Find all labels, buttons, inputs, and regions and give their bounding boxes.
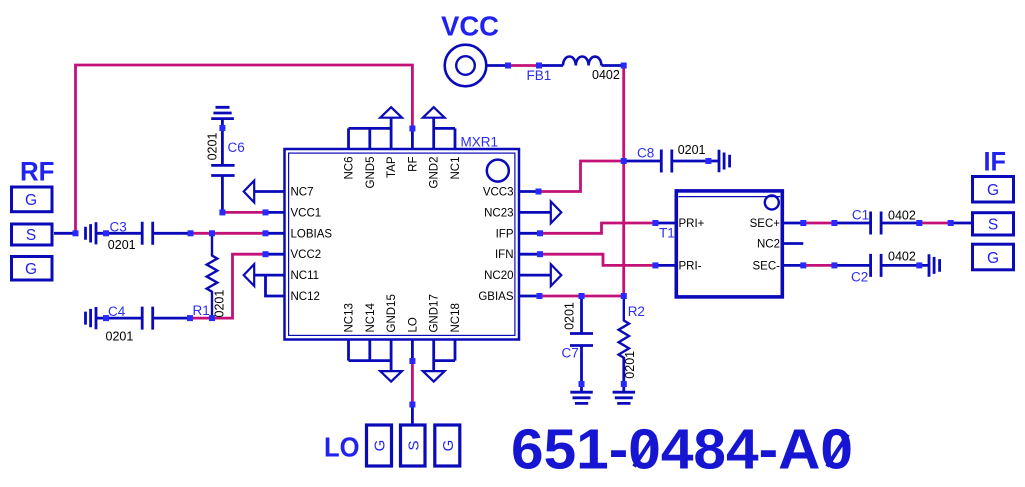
wire NC7 pin: [254, 190, 284, 193]
wire GND17 stub: [432, 340, 435, 372]
SECTION: IC pin name texts: [291, 156, 781, 332]
node C3 out: [188, 230, 194, 236]
wire NC6 stub: [347, 128, 350, 149]
svg-text:G: G: [372, 440, 389, 452]
wire C4/R1 to VCC2: [190, 254, 266, 318]
wire C3 left lead: [96, 232, 142, 235]
wire RF S pad to RF pin (net RF): [76, 65, 413, 233]
wire RF S pad stub: [54, 232, 76, 235]
wire IFN to T1 PRI-: [540, 254, 655, 265]
svg-text:R1: R1: [193, 303, 210, 318]
svg-text:NC14: NC14: [365, 302, 377, 332]
wire RF pin stub: [411, 129, 414, 150]
svg-text:LO: LO: [407, 317, 419, 332]
svg-text:VCC1: VCC1: [291, 207, 322, 219]
svg-text:NC7: NC7: [291, 187, 314, 199]
port LO pads G/S/G: [367, 425, 460, 466]
svg-text:0201: 0201: [623, 351, 637, 379]
ground (C6 top, pointing up): [211, 107, 234, 118]
svg-text:C1: C1: [852, 208, 869, 223]
node C8 in: [621, 158, 627, 164]
wire NC18 stub: [454, 340, 457, 361]
node IFP: [537, 230, 543, 236]
svg-text:G: G: [987, 250, 999, 267]
svg-text:G: G: [25, 261, 37, 278]
wire C2 left lead: [834, 264, 870, 267]
wire T1 SEC- to C2: [803, 264, 834, 267]
node VCC-a: [505, 63, 511, 69]
SECTION: wires: [76, 65, 951, 405]
capacitor C3: [142, 222, 153, 245]
node C1 out: [916, 220, 922, 226]
wire C6 top lead: [221, 119, 224, 166]
capacitor C4: [142, 307, 153, 330]
wire TAP stub: [390, 118, 393, 150]
wire VCC to FB1: [508, 64, 539, 67]
node C6 corner: [219, 209, 225, 215]
node C1 in: [831, 220, 837, 226]
wire IF S pad stub: [951, 222, 971, 225]
node C7 bottom: [579, 381, 585, 387]
slash on zero 1: [634, 435, 655, 467]
wire junction to FB1: [539, 64, 563, 67]
wire VCC1 pin stub: [266, 211, 285, 214]
node SEC+: [800, 220, 806, 226]
node C8 out: [705, 158, 711, 164]
ground (C4 left, sideways): [86, 307, 97, 329]
wire GND2-NC1 bracket: [434, 127, 455, 130]
wire GBIAS to C7/R2: [540, 295, 624, 298]
wire NC13 stub: [347, 340, 350, 361]
svg-text:RF: RF: [20, 157, 55, 187]
wire C1 right lead: [881, 222, 919, 225]
capacitor C6 (vertical): [211, 165, 234, 175]
wire T1 SEC+ stub: [782, 222, 803, 225]
node C4 gnd: [103, 315, 109, 321]
ground (C3 left, sideways): [86, 222, 97, 244]
node PRI-: [652, 262, 658, 268]
svg-text:C2: C2: [851, 269, 868, 284]
svg-text:T1: T1: [659, 226, 675, 241]
node IFN: [537, 251, 543, 257]
svg-text:S: S: [26, 227, 36, 244]
wire T1 PRI+ stub: [655, 222, 676, 225]
node C2 in: [831, 262, 837, 268]
wire C1 to IF S pad: [919, 222, 950, 225]
svg-text:0201: 0201: [213, 290, 227, 318]
wire NC13-NC14-GND15 bracket: [349, 359, 392, 362]
svg-text:GND2: GND2: [429, 157, 441, 189]
wire GND17-NC18 bracket: [434, 359, 455, 362]
SECTION: arrows (no-connect flags): [244, 107, 562, 381]
arrow NC23: [551, 202, 562, 224]
wire C7 top lead: [580, 296, 583, 334]
svg-text:NC23: NC23: [484, 207, 513, 219]
wire NC20 pin: [519, 274, 551, 277]
node VCC1: [263, 209, 269, 215]
svg-text:NC6: NC6: [344, 157, 356, 180]
port VCC circle: [445, 45, 487, 87]
svg-text:VCC2: VCC2: [291, 249, 322, 261]
wire IFP to T1 PRI+: [540, 223, 655, 233]
wire C1 left lead: [834, 222, 870, 225]
svg-text:NC13: NC13: [344, 303, 356, 332]
wire T1 PRI- stub: [655, 264, 676, 267]
svg-text:GND15: GND15: [386, 294, 398, 332]
slash on zero 2: [827, 435, 848, 467]
node GBIAS: [537, 293, 543, 299]
svg-text:FB1: FB1: [527, 68, 552, 83]
wire NC1 stub: [454, 128, 457, 149]
svg-text:TAP: TAP: [386, 156, 398, 178]
svg-text:IF: IF: [984, 147, 1007, 177]
node VCC-b: [536, 63, 542, 69]
wire C3 to LOBIAS: [191, 232, 266, 235]
svg-text:LOBIAS: LOBIAS: [291, 228, 333, 240]
capacitor C8: [661, 150, 672, 173]
node VCC-c: [621, 63, 627, 69]
node SEC-: [800, 262, 806, 268]
wire GBIAS pin stub: [519, 295, 540, 298]
svg-text:C4: C4: [108, 304, 126, 319]
wire NC14 stub: [368, 340, 371, 361]
svg-text:GBIAS: GBIAS: [478, 291, 513, 303]
node C4 out: [187, 315, 193, 321]
node R1 top: [209, 230, 215, 236]
wire GND5 stub: [368, 128, 371, 149]
svg-text:G: G: [25, 192, 37, 209]
node VCC3: [536, 189, 542, 195]
svg-text:VCC: VCC: [441, 11, 499, 42]
node R2 bottom: [621, 381, 627, 387]
wire LO pin to LO S pad: [411, 361, 414, 405]
svg-text:LO: LO: [324, 431, 360, 462]
arrow TAP (up): [380, 107, 402, 118]
node R1 bottom: [209, 315, 215, 321]
svg-text:C6: C6: [228, 140, 245, 155]
wire T1 NC2 stub: [782, 242, 803, 245]
wire VCC2 pin stub: [266, 253, 285, 256]
svg-text:NC1: NC1: [450, 157, 462, 180]
wire GND2 stub: [432, 118, 435, 150]
wire C8 left lead: [624, 160, 662, 163]
wire C4 right lead: [153, 317, 190, 320]
wire T1 SEC- stub: [782, 264, 803, 267]
port IF pads G/S/G: [973, 177, 1014, 270]
svg-text:VCC3: VCC3: [483, 187, 514, 199]
svg-text:0201: 0201: [108, 238, 136, 252]
node RF pin: [409, 126, 415, 132]
wire VCC3 jog to C8: [539, 161, 624, 192]
resistor R2: [619, 296, 629, 382]
svg-text:C3: C3: [110, 220, 127, 235]
svg-text:0402: 0402: [888, 209, 916, 223]
arrow GND2 (up): [423, 107, 445, 118]
node C7 top: [579, 293, 585, 299]
SECTION: junction squares: [73, 63, 954, 408]
wire NC11/NC12 bracket: [254, 274, 284, 277]
svg-text:MXR1: MXR1: [461, 135, 499, 150]
svg-text:NC18: NC18: [450, 303, 462, 332]
svg-text:NC20: NC20: [484, 270, 513, 282]
wire C3 right lead: [153, 232, 191, 235]
inductor FB1: [563, 57, 601, 66]
op IC MXR1 body: [285, 149, 520, 340]
node LO bottom: [409, 402, 415, 408]
svg-text:GND17: GND17: [429, 294, 441, 332]
wire LOBIAS pin stub: [266, 232, 285, 235]
ground (C8 right, sideways): [719, 150, 730, 173]
svg-text:0402: 0402: [592, 68, 620, 82]
node VCC2: [263, 251, 269, 257]
capacitor C2: [871, 254, 882, 277]
svg-text:0201: 0201: [563, 302, 577, 330]
svg-text:PRI+: PRI+: [679, 218, 705, 230]
wire C6 bottom lead: [221, 176, 224, 214]
svg-text:IFN: IFN: [495, 249, 514, 261]
ground (C2 right, sideways): [929, 254, 940, 277]
capacitor C7 (vertical): [570, 334, 593, 346]
wire FB1 to junction: [602, 64, 624, 67]
node PRI+: [652, 220, 658, 226]
arrow NC20: [551, 264, 562, 286]
node C2 out: [916, 262, 922, 268]
node C6 top: [219, 125, 225, 131]
svg-text:0402: 0402: [888, 250, 916, 264]
wire VCC vertical FB1 out down to R2 top: [622, 66, 625, 297]
wire C2 right lead: [881, 264, 929, 267]
svg-text:NC11: NC11: [291, 270, 320, 282]
svg-text:G: G: [987, 182, 999, 199]
wire VCC3 pin stub: [519, 190, 539, 193]
wire NC6-GND5-TAP bracket: [349, 127, 392, 130]
wire IFP pin stub: [519, 232, 540, 235]
arrow NC7: [244, 181, 255, 203]
arrow NC11: [244, 264, 255, 286]
transformer T1 body: [676, 191, 782, 297]
svg-text:0201: 0201: [206, 133, 220, 161]
svg-text:C8: C8: [637, 146, 654, 161]
wire C4 left lead: [96, 317, 142, 320]
svg-text:NC12: NC12: [291, 291, 320, 303]
svg-text:GND5: GND5: [365, 157, 377, 189]
svg-text:0201: 0201: [678, 143, 706, 157]
wire VCC port to junction: [487, 64, 509, 67]
node R2 top: [621, 293, 627, 299]
wire C7 bottom lead: [580, 346, 583, 393]
svg-text:S: S: [988, 217, 998, 234]
node C3 gnd: [103, 230, 109, 236]
svg-text:S: S: [405, 440, 422, 450]
node LO top: [409, 358, 415, 364]
svg-text:IFP: IFP: [496, 228, 514, 240]
wire C8 right lead: [672, 160, 719, 163]
svg-text:RF: RF: [407, 157, 419, 172]
svg-text:651-0484-A0: 651-0484-A0: [511, 418, 853, 482]
svg-text:NC2: NC2: [757, 239, 780, 251]
ground (C7 bottom): [570, 392, 593, 403]
resistor R1: [207, 233, 218, 318]
wire LO S pad stub: [411, 405, 414, 424]
arrow GND15 (down): [380, 371, 402, 382]
ground (R2 bottom): [613, 392, 636, 403]
wire GND15 stub: [390, 340, 393, 372]
svg-text:C7: C7: [562, 346, 579, 361]
node IF S: [948, 220, 954, 226]
capacitor C1: [871, 212, 882, 235]
wire LO pin stub: [411, 340, 414, 362]
wire NC23 pin: [519, 211, 551, 214]
port RF pads G/S/G: [12, 187, 53, 280]
svg-text:SEC+: SEC+: [750, 218, 781, 230]
svg-text:SEC-: SEC-: [753, 260, 781, 272]
wire T1 SEC+ to C1: [803, 222, 834, 225]
wire C6 to VCC1: [222, 211, 265, 214]
node LOBIAS: [263, 230, 269, 236]
wire R2 bottom lead: [622, 358, 625, 393]
node RF S: [73, 230, 79, 236]
svg-text:G: G: [440, 440, 457, 452]
svg-text:R2: R2: [628, 304, 645, 319]
arrow GND17 (down): [423, 371, 445, 382]
svg-text:0201: 0201: [106, 330, 134, 344]
svg-text:PRI-: PRI-: [679, 260, 702, 272]
wire IFN pin stub: [519, 253, 540, 256]
